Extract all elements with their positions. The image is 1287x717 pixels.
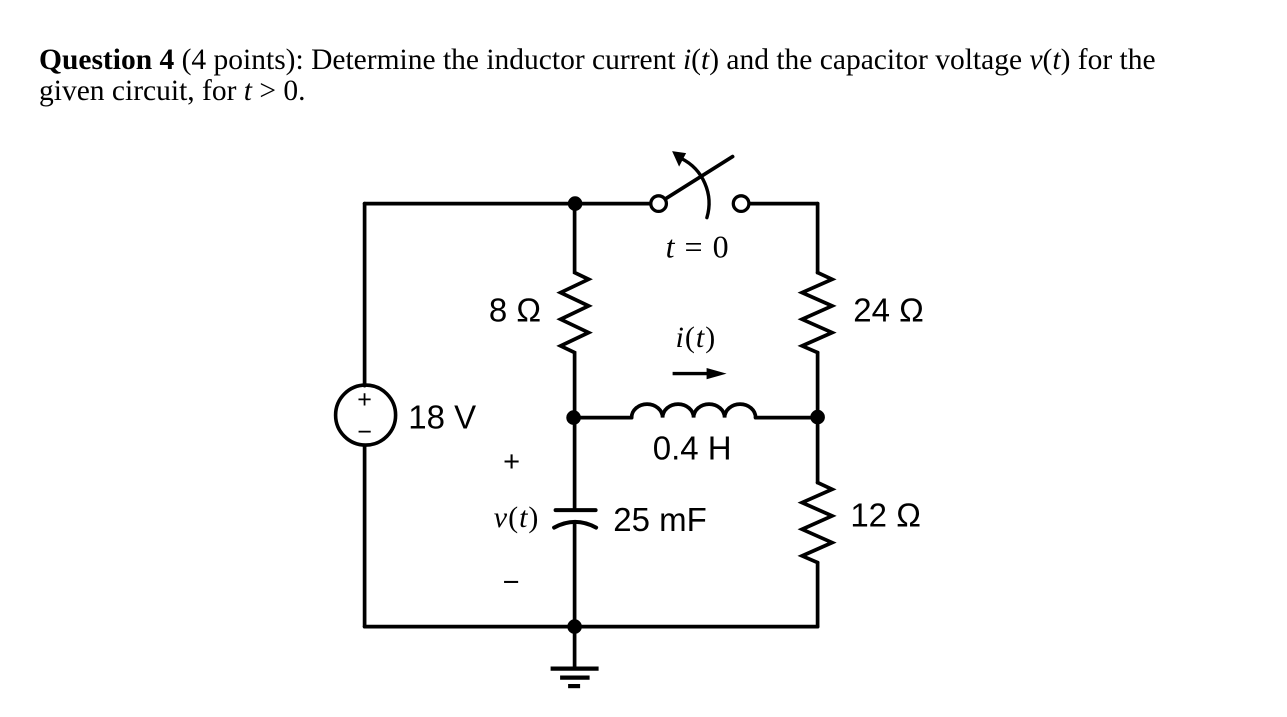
svg-text:24 Ω: 24 Ω: [853, 292, 924, 329]
svg-text:+: +: [503, 446, 520, 478]
svg-text:t = 0: t = 0: [666, 229, 730, 265]
svg-text:v(t): v(t): [494, 501, 540, 534]
svg-text:0.4 H: 0.4 H: [653, 430, 732, 467]
svg-text:8 Ω: 8 Ω: [489, 292, 541, 329]
svg-text:+: +: [357, 386, 372, 414]
svg-text:25 mF: 25 mF: [613, 501, 707, 538]
svg-text:−: −: [503, 567, 520, 599]
svg-text:i(t): i(t): [676, 321, 717, 354]
svg-text:18 V: 18 V: [408, 399, 476, 436]
svg-text:12 Ω: 12 Ω: [850, 497, 921, 534]
svg-text:−: −: [357, 418, 372, 446]
